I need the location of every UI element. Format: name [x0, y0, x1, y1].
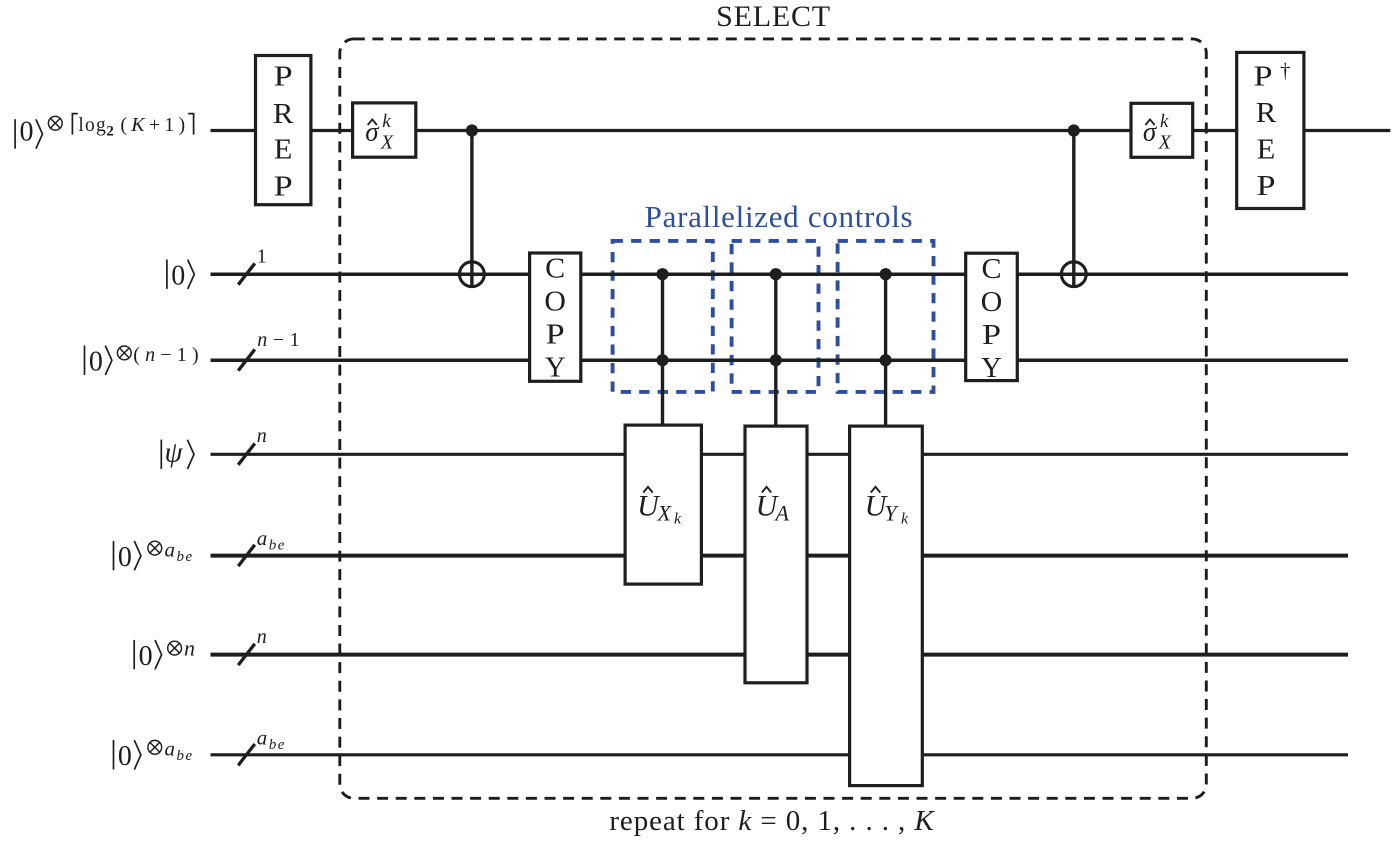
svg-text:n−1: n−1 — [257, 329, 305, 351]
SELECT dashed boundary box — [340, 39, 1207, 798]
svg-text:0: 0 — [139, 641, 153, 672]
svg-text:C: C — [545, 253, 565, 285]
control dot U_A wire 2 — [770, 268, 782, 280]
svg-text:Y: Y — [981, 352, 1002, 384]
wire q5 — [211, 554, 1349, 558]
CNOT 2 target on wire 2 — [1061, 262, 1086, 287]
bundle slash wire 3 with size n-1 — [238, 329, 305, 371]
input label ket psi on wire 4 — [161, 437, 194, 470]
gate U_Yk — [850, 426, 923, 785]
svg-text:R: R — [273, 98, 294, 130]
input label ket0 a_be on wire 7 — [114, 737, 194, 773]
gate U_A — [745, 426, 807, 683]
svg-text:X: X — [657, 501, 673, 526]
svg-text:n: n — [257, 626, 267, 648]
svg-text:E: E — [274, 134, 293, 166]
svg-text:0: 0 — [118, 542, 132, 573]
parallelized controls dashed box 1 — [613, 241, 713, 392]
svg-text:0: 0 — [89, 346, 103, 377]
gate U_Xk — [625, 425, 701, 584]
bundle slash wire 4 with size n — [238, 425, 267, 465]
svg-text:P: P — [1254, 60, 1273, 92]
gate sigma_X^k right — [1131, 103, 1193, 157]
wire q3 — [211, 358, 1349, 362]
bundle slash wire 5 with size a_be — [238, 526, 286, 566]
CNOT 1 target on wire 2 — [460, 262, 485, 287]
svg-text:O: O — [544, 286, 566, 318]
CNOT 1 vertical stem — [470, 131, 473, 289]
svg-text:X: X — [1158, 131, 1172, 153]
svg-text:Parallelized controls: Parallelized controls — [645, 199, 914, 234]
wire q2 — [211, 272, 1349, 276]
svg-text:0: 0 — [171, 260, 185, 291]
input label ket0 log2(K+1) on wire 1 — [15, 114, 194, 149]
bundle slash wire 6 with size n — [238, 626, 267, 665]
svg-text:2: 2 — [106, 123, 114, 139]
control dot U_Xk wire 3 — [656, 354, 668, 366]
parallelized controls dashed box 2 — [732, 241, 819, 392]
svg-text:n: n — [184, 635, 195, 660]
svg-text:X: X — [380, 131, 394, 153]
input label ket0 (n-1) on wire 3 — [85, 344, 204, 378]
gate COPY left — [530, 253, 581, 384]
svg-text:P: P — [274, 171, 293, 203]
input label ket0 n on wire 6 — [134, 635, 195, 672]
svg-text:k: k — [901, 510, 909, 527]
input label ket0 on wire 2 — [167, 260, 194, 292]
svg-text:ψ: ψ — [164, 437, 183, 469]
input label ket0 a_be on wire 5 — [114, 537, 194, 573]
svg-text:0: 0 — [118, 741, 132, 772]
svg-text:repeat for k = 0, 1, . . . , K: repeat for k = 0, 1, . . . , K — [609, 805, 935, 837]
svg-text:A: A — [774, 501, 790, 526]
parallelized controls dashed box 3 — [838, 241, 934, 392]
control stem U_Yk — [884, 274, 887, 430]
control dot U_Yk wire 3 — [880, 354, 892, 366]
control dot CNOT 2 on wire 1 — [1068, 124, 1080, 136]
svg-text:P: P — [274, 61, 293, 93]
svg-text:†: † — [1280, 59, 1291, 83]
bundle slash wire 2 with size 1 — [238, 246, 267, 285]
svg-text:O: O — [981, 286, 1003, 318]
control stem U_A — [774, 274, 777, 430]
svg-text:P: P — [982, 319, 1001, 351]
svg-text:k: k — [674, 510, 682, 527]
wire q6 — [211, 653, 1349, 657]
svg-text:P: P — [546, 319, 565, 351]
svg-text:(n−1): (n−1) — [133, 344, 204, 366]
svg-text:1: 1 — [257, 246, 267, 268]
svg-text:log: log — [78, 115, 107, 136]
svg-text:n: n — [257, 425, 267, 447]
control dot CNOT 1 on wire 1 — [466, 124, 478, 136]
svg-text:P: P — [1257, 170, 1276, 202]
svg-text:E: E — [1257, 134, 1276, 166]
gate COPY right — [966, 253, 1018, 384]
svg-text:C: C — [982, 253, 1002, 285]
svg-text:(K+1): (K+1) — [120, 114, 189, 136]
wire q7 — [211, 753, 1349, 756]
wire q1 — [211, 129, 1391, 132]
svg-text:SELECT: SELECT — [716, 0, 831, 33]
gate PREP — [256, 56, 311, 205]
control stem U_Xk — [661, 274, 664, 430]
gate PREP dagger — [1237, 52, 1304, 208]
control dot U_A wire 3 — [770, 354, 782, 366]
svg-text:k: k — [382, 111, 391, 132]
svg-text:R: R — [1256, 97, 1277, 129]
control dot U_Xk wire 2 — [656, 268, 668, 280]
wire q4 — [211, 453, 1349, 456]
gate sigma_X^k left — [353, 103, 416, 157]
svg-text:k: k — [1160, 111, 1169, 132]
svg-text:0: 0 — [20, 117, 34, 148]
CNOT 2 vertical stem — [1072, 131, 1075, 289]
bundle slash wire 7 with size a_be — [238, 726, 286, 766]
control dot U_Yk wire 2 — [880, 268, 892, 280]
svg-text:Y: Y — [545, 352, 566, 384]
